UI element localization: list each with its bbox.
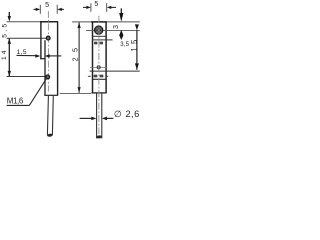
- hidden hole blobs lower: [94, 75, 98, 78]
- dim 5 top dimension line left tail: [34, 8, 38, 10]
- label 1,5 right-pointing arrowhead: [35, 54, 40, 57]
- body right edge (right view): [105, 22, 107, 94]
- body bottom edge (right view): [91, 92, 106, 94]
- top edge extension line full: [72, 21, 140, 23]
- cable left edge (left view): [47, 96, 48, 135]
- dia 2,6 right tail: [107, 117, 114, 119]
- extension lines top: [90, 3, 92, 12]
- dim 5,5 up arrowhead / 14 top: [8, 38, 11, 44]
- cable right edge (right view): [101, 93, 103, 138]
- label 1,5 text: [17, 49, 27, 56]
- dim 15 line: [136, 30, 138, 70]
- svg-text:15: 15: [130, 36, 139, 51]
- extension line hole2 level: [7, 76, 46, 78]
- centerline: [47, 11, 49, 92]
- svg-text:M1,6: M1,6: [7, 97, 24, 106]
- svg-text:3: 3: [111, 25, 120, 29]
- 1,5 left-pointing arrowhead: [45, 54, 50, 57]
- internal line L2 + ext: [92, 39, 113, 41]
- dia 2,6 right-pointing arrowhead: [91, 117, 96, 121]
- cable end cap (right view): [96, 135, 102, 139]
- svg-text:25: 25: [70, 43, 79, 62]
- dim 3 upper tail: [120, 8, 122, 14]
- dim 25 line: [78, 22, 80, 93]
- sensing face hatched circle: [95, 26, 103, 34]
- dim 5 left tail: [83, 6, 88, 8]
- screw hole circle 1: [46, 36, 50, 40]
- extension line right: [56, 5, 58, 14]
- dim 5 left arrowhead: [86, 6, 91, 9]
- internal line L4: [92, 78, 106, 80]
- hatch texture: [96, 27, 102, 33]
- dim 3 / 3,5 rhombus arrows: [119, 30, 123, 40]
- dim 5 right arrowhead: [57, 8, 62, 11]
- dim 14 text: [1, 48, 8, 60]
- dia 2,6 text: [114, 109, 140, 119]
- dim 14 down arrowhead: [8, 71, 11, 77]
- extension line left: [39, 5, 41, 14]
- internal line L1: [92, 35, 106, 37]
- side line pieces at hole2 level: [88, 75, 91, 77]
- svg-text:5,5: 5,5: [1, 21, 8, 37]
- internal line L3 (15 ext): [90, 70, 140, 72]
- hidden hole blobs upper: [94, 42, 98, 45]
- body top edge (right view): [91, 21, 107, 23]
- screw hole circle 2: [46, 75, 50, 79]
- top edge extension to left dim: [7, 21, 41, 23]
- dim 25 down arrowhead: [78, 87, 81, 93]
- dim 5 left arrowhead: [36, 8, 41, 11]
- body left edge: [40, 21, 42, 59]
- svg-text:14: 14: [1, 48, 8, 60]
- dim 15 top arrowhead: [135, 24, 139, 30]
- screw hole side circle: [90, 66, 108, 68]
- dim 3 down arrowhead: [119, 13, 123, 22]
- dim 5,5 line upper tail: [8, 12, 10, 19]
- body right edge: [57, 21, 59, 95]
- dia 2,6 left tail: [80, 117, 92, 119]
- dim 5,5 down arrowhead: [8, 16, 11, 22]
- cable end cap (left view): [47, 133, 53, 137]
- dim 5 right tail: [60, 8, 64, 10]
- label 1,5 leader underline: [17, 54, 37, 56]
- dia 2,6 left-pointing arrowhead: [102, 117, 107, 121]
- dim 3 text: [111, 25, 120, 29]
- step line: [40, 58, 45, 60]
- dim 25 text: [70, 43, 79, 62]
- M1,6 underline: [7, 104, 30, 106]
- M1,6 label text: [7, 97, 24, 106]
- centerline (right view): [98, 16, 100, 134]
- dim 5 right arrowhead: [107, 6, 112, 9]
- M1,6 leader line: [29, 79, 46, 105]
- dim 5 top text (right view): [94, 0, 98, 8]
- dim 14 line: [8, 38, 10, 76]
- sensing circle axis line: [86, 29, 140, 31]
- cable left edge (right view): [96, 93, 98, 138]
- dim 25 up arrowhead: [78, 22, 81, 28]
- svg-text:5: 5: [94, 0, 98, 8]
- dim 3,5 small text: [120, 42, 129, 48]
- dim 5,5 text: [1, 21, 8, 37]
- dim 25 bottom extension line: [60, 93, 91, 95]
- extension line hole1 level: [7, 37, 47, 39]
- dim 15 bottom arrowhead: [135, 63, 139, 70]
- body top edge: [40, 21, 58, 23]
- body left edge (right view): [92, 22, 94, 94]
- cable right edge (left view): [51, 96, 54, 135]
- 1,5 right tail: [50, 55, 62, 57]
- dim 5 top text: [45, 1, 49, 9]
- dim 15 text: [130, 36, 139, 51]
- inner lower-left edge: [44, 40, 46, 95]
- svg-text:3,5: 3,5: [120, 42, 129, 48]
- body bottom edge: [44, 94, 58, 96]
- dim 5 right tail: [110, 6, 116, 8]
- svg-text:∅ 2,6: ∅ 2,6: [114, 109, 140, 119]
- svg-text:5: 5: [45, 1, 49, 9]
